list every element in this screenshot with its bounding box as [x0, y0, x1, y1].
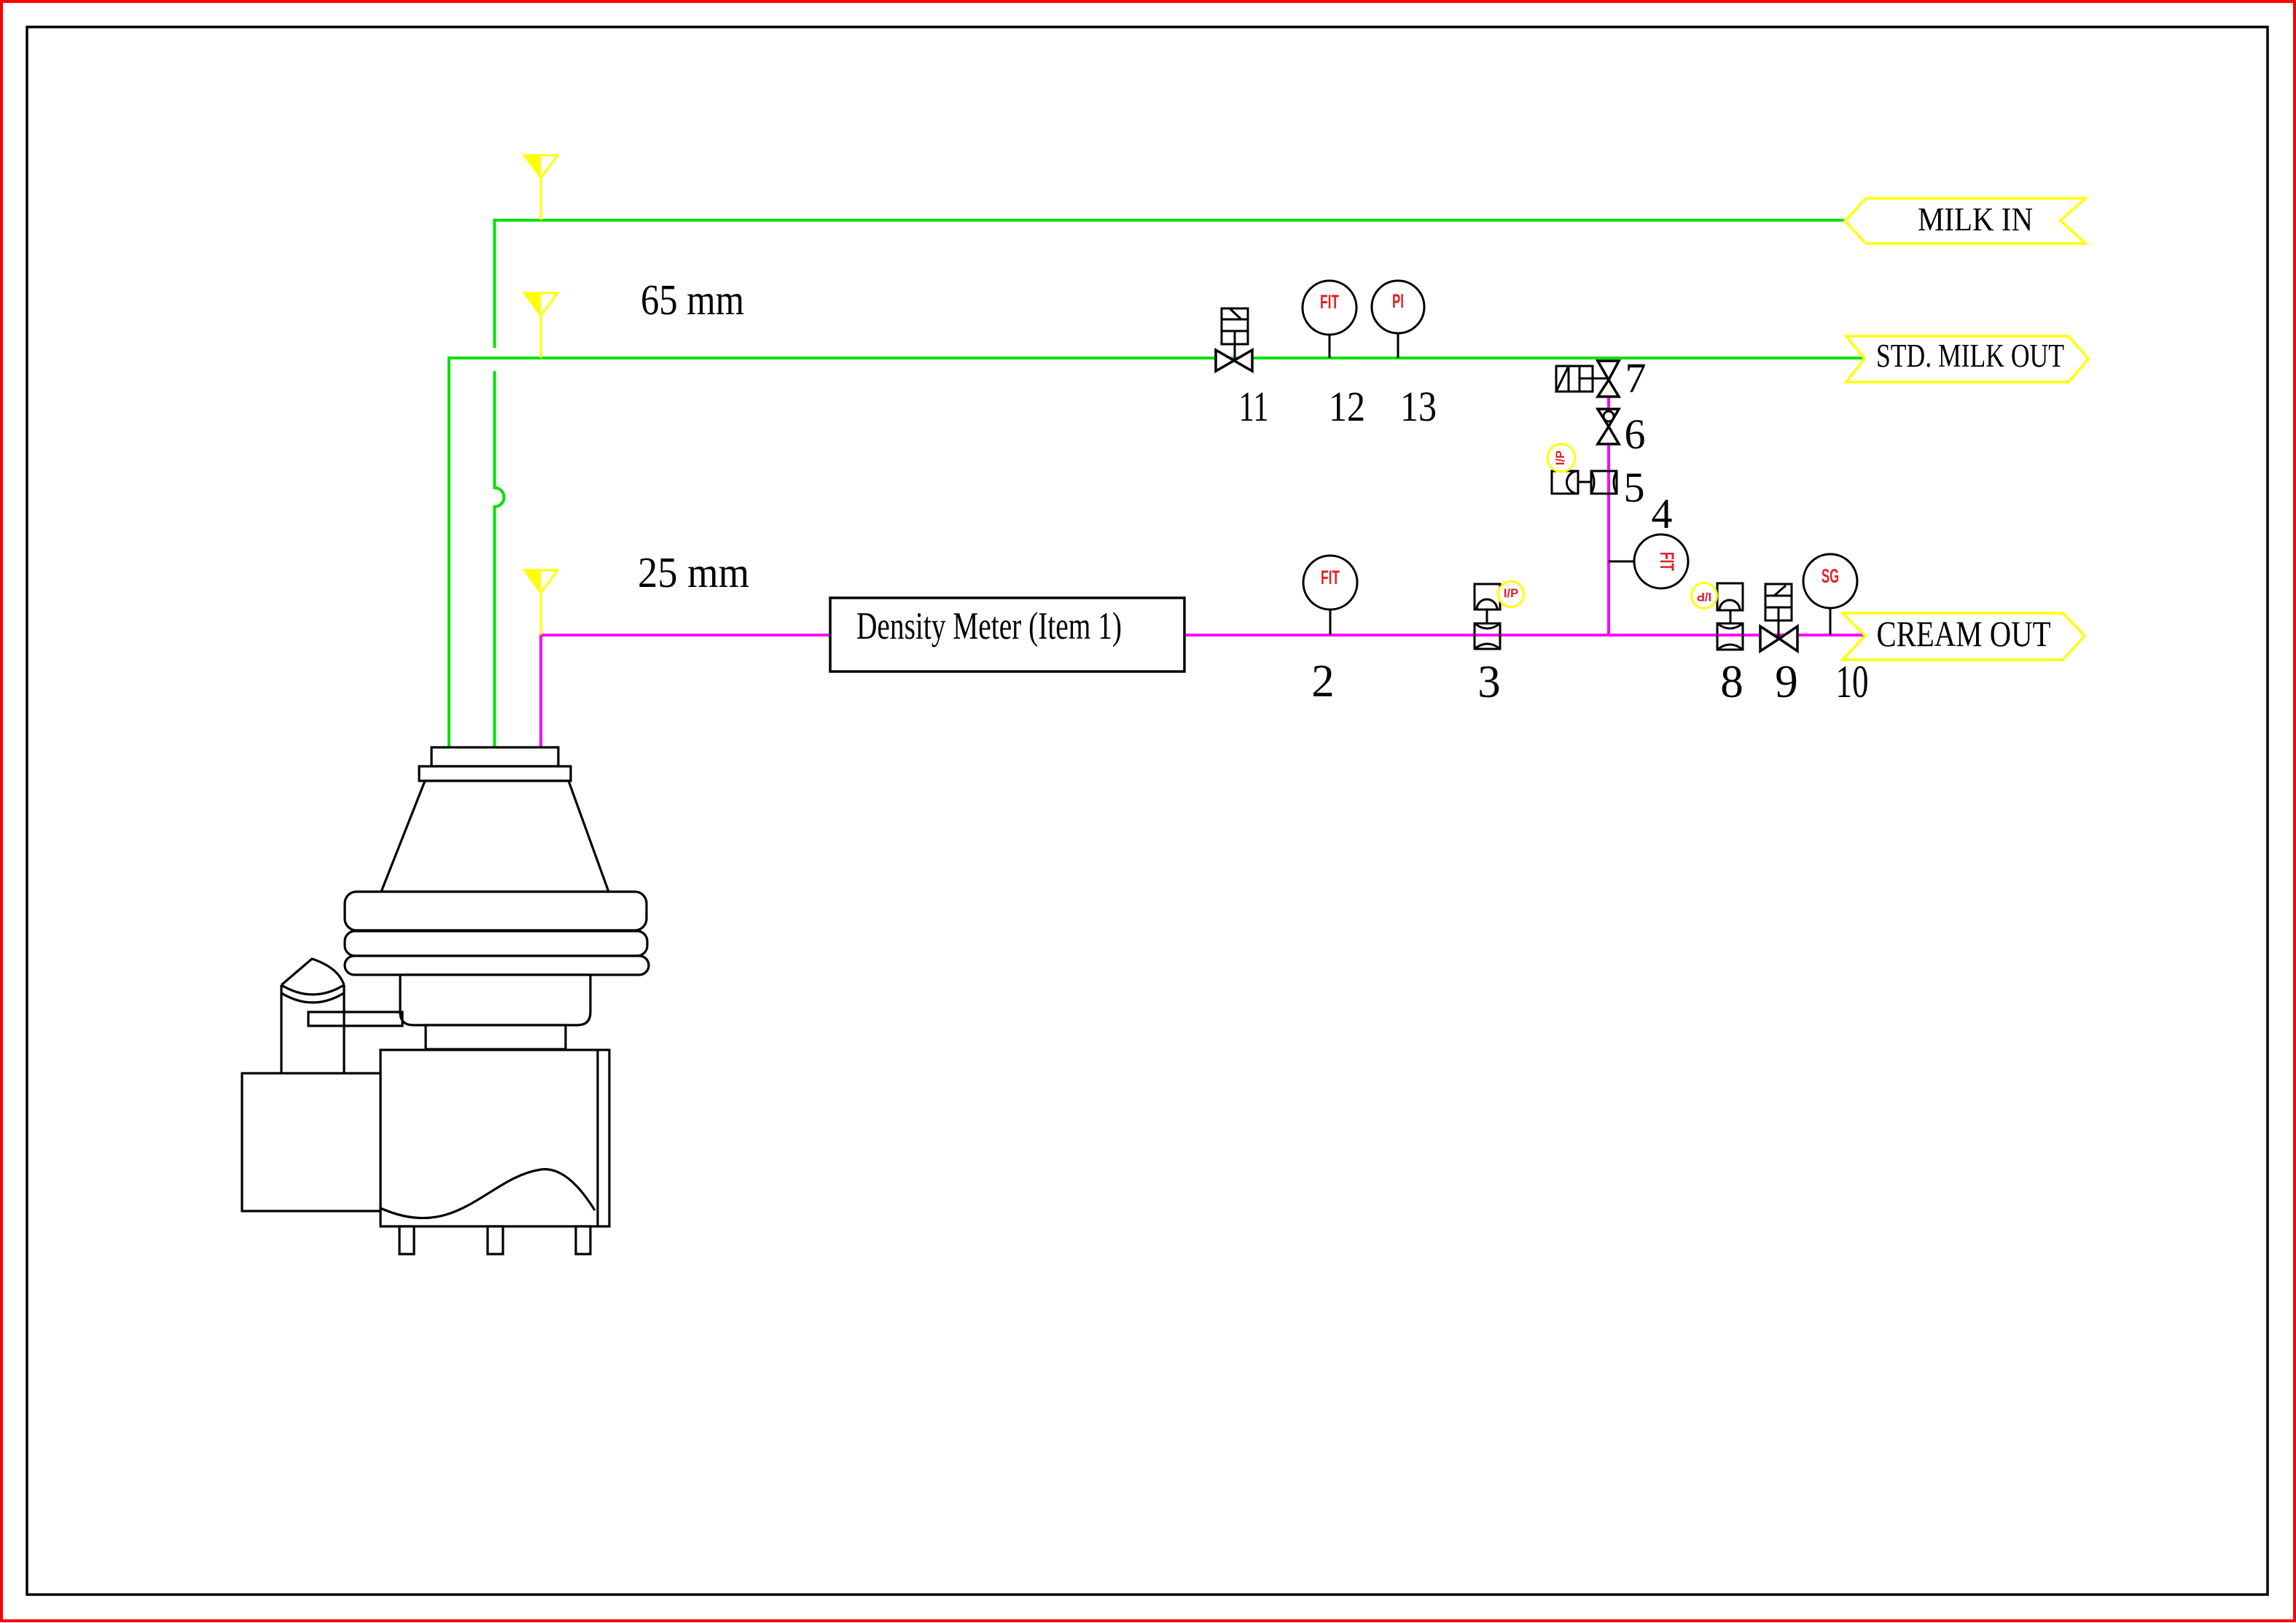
svg-text:CREAM OUT: CREAM OUT [1877, 613, 2051, 654]
wire: milk in drop with jump [495, 371, 504, 747]
svg-text:11: 11 [1239, 383, 1269, 430]
svg-text:FIT: FIT [1320, 291, 1339, 313]
separator: foot 2 [488, 1226, 503, 1254]
svg-text:65 mm: 65 mm [641, 276, 744, 324]
control valve 3 actuator [1475, 584, 1500, 623]
separator: band 1 [345, 892, 647, 930]
instrument FIT 12 [1303, 281, 1356, 358]
control valve 8 body [1717, 623, 1743, 650]
separator: main body [380, 1050, 609, 1226]
svg-text:I/P: I/P [1554, 451, 1567, 465]
banner MILK IN [1845, 198, 2085, 244]
I/P tag circle at 3 [1499, 582, 1524, 607]
svg-text:Density Meter (Item 1): Density Meter (Item 1) [856, 605, 1122, 647]
separator: flange rect [419, 766, 571, 781]
wire: control riser lower (magenta) [1607, 444, 1610, 635]
valve 7 body (vertical hourglass) [1598, 361, 1619, 397]
wire: FIT4 tap stub [1609, 561, 1634, 563]
svg-text:MILK IN: MILK IN [1918, 201, 2033, 238]
I/P tag circle at 8 [1692, 583, 1717, 609]
separator: top inlet rect [419, 747, 571, 781]
instrument PI 13 [1372, 281, 1424, 358]
svg-text:7: 7 [1625, 354, 1647, 402]
valve 6 body (hourglass with circle) [1598, 409, 1619, 444]
svg-text:FIT: FIT [1321, 567, 1340, 588]
svg-text:STD. MILK OUT: STD. MILK OUT [1876, 338, 2064, 374]
instrument FIT 2 [1303, 556, 1357, 635]
I/P tag circle at 5 [1547, 444, 1575, 472]
separator: side bar [308, 1012, 402, 1026]
svg-text:FIT: FIT [1656, 552, 1678, 571]
svg-text:25 mm: 25 mm [638, 548, 749, 596]
I/P converter 5 left square [1552, 471, 1591, 494]
svg-text:2: 2 [1311, 655, 1335, 707]
separator: mid section [400, 975, 590, 1025]
flag F1 on milk in line [525, 155, 558, 220]
svg-text:PI: PI [1392, 290, 1404, 312]
svg-text:4: 4 [1652, 490, 1673, 537]
separator: band 2 [345, 931, 647, 956]
banner CREAM OUT [1843, 613, 2085, 660]
control valve 3 body [1475, 623, 1500, 649]
I/P converter 5 right square [1591, 471, 1617, 494]
valve 11 actuator [1222, 308, 1248, 360]
svg-text:9: 9 [1775, 656, 1798, 707]
separator: neck [426, 1025, 566, 1049]
valve 11 body (bowtie) [1216, 350, 1252, 371]
svg-text:5: 5 [1624, 464, 1645, 511]
instrument SG 10 [1803, 554, 1857, 635]
separator: cylinder attachment [281, 959, 344, 1073]
svg-text:10: 10 [1836, 656, 1869, 707]
separator: left box [242, 1073, 380, 1211]
density meter box [830, 598, 1184, 672]
flag F3 on cream line [525, 570, 558, 635]
wire: std milk out header (green) [449, 358, 1865, 747]
svg-text:3: 3 [1477, 656, 1501, 707]
svg-text:12: 12 [1329, 383, 1365, 430]
control valve 8 actuator [1717, 583, 1743, 623]
separator: cone [381, 781, 609, 892]
flag F2 on std milk line [525, 293, 558, 358]
valve 7 solenoid box [1556, 366, 1609, 392]
wire: control riser upper (magenta) [1607, 397, 1610, 409]
separator: foot 1 [399, 1226, 414, 1254]
separator: body seam line [596, 1050, 598, 1226]
banner STD. MILK OUT [1846, 336, 2088, 382]
svg-text:I/P: I/P [1504, 587, 1518, 600]
svg-text:I/P: I/P [1697, 590, 1711, 603]
wire: cream out header (magenta) [541, 635, 1865, 747]
separator: wave curve [380, 1169, 595, 1218]
valve 9 actuator [1765, 584, 1792, 639]
svg-text:13: 13 [1400, 383, 1437, 430]
separator: band 3 [345, 956, 649, 975]
valve 9 body (bowtie) [1760, 626, 1797, 651]
svg-text:6: 6 [1625, 410, 1646, 458]
wire: milk in header (green) [495, 220, 1846, 348]
svg-text:SG: SG [1821, 565, 1839, 587]
svg-text:8: 8 [1720, 656, 1744, 707]
instrument FIT 4 [1634, 534, 1688, 588]
separator: foot 3 [576, 1226, 590, 1254]
